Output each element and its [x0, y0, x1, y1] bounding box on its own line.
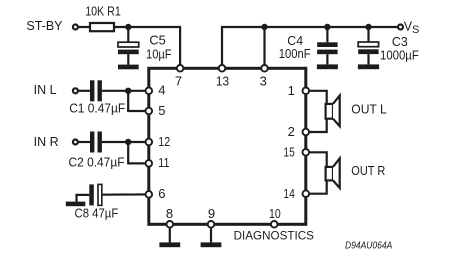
- wire C8 to ground: [77, 195, 90, 202]
- pin 4: [146, 83, 166, 98]
- pin 13: [216, 65, 229, 88]
- ground C3: [358, 64, 379, 69]
- wire Vs rail from pin 13: [222, 27, 400, 68]
- capacitor C3: [358, 42, 378, 64]
- ground C4: [317, 64, 338, 69]
- wire C2 to pin 12: [102, 141, 149, 143]
- svg-text:10: 10: [269, 206, 281, 221]
- wire IN L to C1: [78, 90, 90, 92]
- node C2 junction: [125, 139, 131, 145]
- ground C5: [118, 65, 139, 70]
- terminal IN L: [73, 88, 78, 93]
- svg-text:8: 8: [166, 206, 173, 221]
- pin 3: [260, 65, 268, 88]
- capacitor C2: [90, 132, 102, 153]
- pin 12: [146, 134, 171, 149]
- svg-text:10K R1: 10K R1: [85, 4, 121, 18]
- wire C4 lead: [326, 27, 328, 42]
- label C5 10uF: [146, 33, 172, 61]
- label C4 100nF: [279, 34, 311, 61]
- pin 15: [283, 144, 309, 159]
- pin 2: [288, 124, 310, 139]
- ground pin 9: [201, 242, 222, 247]
- svg-text:13: 13: [216, 73, 229, 88]
- capacitor C1: [90, 80, 102, 101]
- svg-text:C3: C3: [392, 35, 408, 49]
- wire C8 to pin 6: [102, 193, 149, 196]
- svg-text:C2 0.47µF: C2 0.47µF: [69, 156, 125, 170]
- ground C8: [66, 202, 86, 207]
- terminal ST-BY: [73, 25, 78, 30]
- svg-text:IN L: IN L: [34, 83, 57, 97]
- wire pin 2 to speaker L: [306, 119, 327, 132]
- svg-text:2: 2: [288, 124, 295, 139]
- wire junction to pin 5: [128, 91, 149, 111]
- wire pin 15 to speaker R: [306, 152, 327, 167]
- node C1 junction: [125, 88, 131, 94]
- wire IN R to C2: [78, 141, 90, 143]
- svg-text:4: 4: [158, 83, 165, 98]
- op-amp U1 (power amplifier IC body): [149, 68, 306, 224]
- label C3 1000uF: [380, 35, 419, 63]
- svg-text:C1 0.47µF: C1 0.47µF: [69, 102, 125, 116]
- svg-text:15: 15: [283, 144, 294, 159]
- svg-text:100nF: 100nF: [279, 47, 311, 61]
- node junction R1/C5: [125, 24, 131, 30]
- svg-text:1000µF: 1000µF: [380, 49, 419, 63]
- speaker OUT L: [326, 96, 340, 127]
- pin 10: [269, 206, 281, 228]
- wire pin 1 to speaker L: [306, 91, 327, 104]
- svg-text:OUT R: OUT R: [351, 164, 385, 178]
- terminal Vs: [398, 25, 403, 30]
- capacitor C8: [89, 184, 102, 205]
- svg-text:DIAGNOSTICS: DIAGNOSTICS: [234, 229, 315, 242]
- svg-text:S: S: [412, 24, 419, 36]
- node above pin 3: [261, 24, 267, 30]
- node C4 junction: [324, 24, 330, 30]
- pin 7: [175, 65, 184, 88]
- capacitor C4: [317, 42, 337, 64]
- svg-text:7: 7: [175, 73, 182, 88]
- wire pin 8 ground stub: [169, 224, 171, 242]
- ground pin 8: [159, 242, 180, 247]
- svg-text:10µF: 10µF: [146, 47, 172, 61]
- pin 11: [146, 155, 170, 170]
- wire pin 9 ground stub: [210, 224, 212, 242]
- svg-text:1: 1: [288, 83, 295, 98]
- svg-text:11: 11: [158, 155, 169, 170]
- svg-text:3: 3: [260, 73, 267, 88]
- svg-text:12: 12: [158, 134, 170, 149]
- wire pin 3 to rail: [263, 27, 265, 68]
- wire R1 to pin 7 corner: [114, 27, 180, 68]
- svg-text:OUT L: OUT L: [351, 102, 386, 116]
- wire junction to C5: [127, 27, 129, 42]
- resistor R1: [90, 23, 114, 31]
- pin 8: [166, 206, 173, 228]
- svg-text:14: 14: [283, 186, 294, 201]
- svg-text:D94AU064A: D94AU064A: [345, 241, 393, 252]
- pin 6: [146, 186, 166, 201]
- svg-text:C5: C5: [149, 33, 165, 47]
- capacitor C5: [118, 42, 139, 64]
- wire pin 14 to speaker R: [306, 180, 327, 193]
- wire C3 lead: [367, 27, 369, 42]
- node C3 junction: [365, 24, 371, 30]
- svg-text:IN R: IN R: [34, 135, 59, 149]
- terminal IN R: [73, 140, 78, 145]
- svg-text:9: 9: [208, 206, 215, 221]
- speaker OUT R: [326, 158, 340, 188]
- wire junction to pin 11: [128, 142, 149, 163]
- wire terminal to R1: [78, 26, 90, 28]
- svg-text:ST-BY: ST-BY: [26, 19, 63, 33]
- wire C1 to pin 4: [102, 90, 149, 92]
- pin 9: [208, 206, 215, 228]
- pin 1: [288, 83, 310, 98]
- svg-text:5: 5: [158, 103, 165, 118]
- pin 14: [283, 186, 309, 201]
- svg-text:6: 6: [158, 186, 165, 201]
- label Vs: [404, 19, 420, 35]
- svg-text:C8 47µF: C8 47µF: [75, 207, 119, 221]
- pin 5: [146, 103, 166, 118]
